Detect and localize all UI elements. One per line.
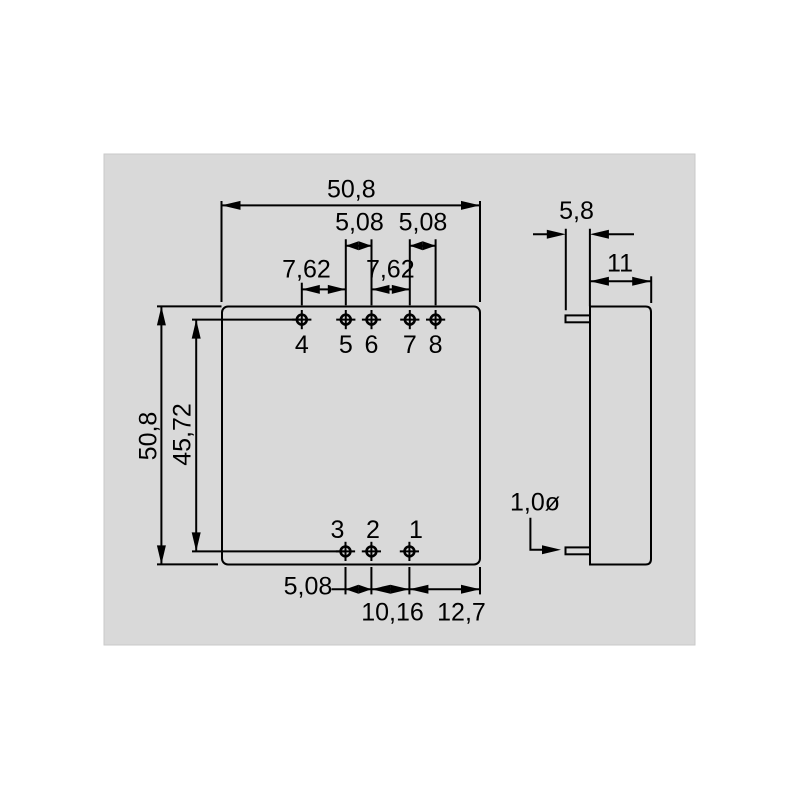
- pin 1: [400, 542, 419, 561]
- svg-text:7: 7: [403, 331, 417, 359]
- pin 6: [362, 310, 381, 329]
- dimension 11: extension line: [590, 276, 651, 303]
- svg-text:5,08: 5,08: [284, 572, 333, 600]
- front view package outline: [222, 307, 480, 565]
- svg-text:5,08: 5,08: [335, 209, 384, 237]
- svg-text:2: 2: [366, 516, 380, 544]
- dimension 7,62 (pins 4-5): extension line: [302, 283, 346, 306]
- pin 4: [292, 310, 311, 329]
- dimension 11: arrowheads: [590, 277, 651, 286]
- dimension 7,62 (pins 4-5): arrowheads: [302, 285, 346, 294]
- dimension 5,8 side: extension lines: [533, 229, 634, 311]
- dimension 5,8 side: arrowheads: [547, 230, 609, 239]
- svg-text:5: 5: [339, 331, 353, 359]
- dimension 5,8 side: tail lines: [533, 233, 553, 235]
- dimension 50,8 left: arrowheads: [157, 306, 166, 564]
- svg-text:7,62: 7,62: [282, 255, 331, 283]
- dimension 5,08 (pins 7-8): arrowheads: [410, 241, 436, 250]
- side view package outline: [590, 307, 651, 565]
- dimension 50,8 top: dimension line: [222, 204, 481, 206]
- dimension 45,72: extension lines: [192, 320, 346, 552]
- leader 1,0 diameter: arrowhead: [542, 545, 561, 554]
- leader 1,0 diameter: polyline: [530, 518, 548, 550]
- svg-text:50,8: 50,8: [327, 176, 376, 204]
- svg-text:7,62: 7,62: [366, 255, 415, 283]
- dimension 50,8 left: extension lines: [157, 306, 222, 564]
- svg-text:3: 3: [331, 516, 345, 544]
- svg-text:4: 4: [295, 331, 309, 359]
- svg-text:5,8: 5,8: [559, 197, 594, 225]
- dimension 5,08 (pins 5-6): arrowheads: [346, 241, 372, 250]
- dimension 45,72: dimension line: [195, 320, 197, 552]
- bottom chain dimension: dimension line with leader from 5,08 label: [332, 588, 481, 590]
- dimension 50,8 top: extension lines: [222, 201, 481, 302]
- svg-text:50,8: 50,8: [135, 412, 163, 461]
- bottom chain dimension: extension lines: [332, 567, 481, 594]
- svg-text:45,72: 45,72: [169, 403, 197, 466]
- pin 8: [426, 310, 445, 329]
- dimension 45,72: arrowheads: [192, 320, 201, 552]
- svg-text:11: 11: [607, 249, 633, 277]
- pin 2: [362, 542, 381, 561]
- svg-text:6: 6: [365, 331, 379, 359]
- pin number labels top row: [295, 331, 443, 359]
- bottom chain dimension: arrowheads: [346, 585, 481, 594]
- pin number labels bottom row: [331, 516, 423, 544]
- side view top pin: [566, 315, 591, 322]
- dimension 11: dimension line: [590, 280, 651, 282]
- pin 3: [336, 542, 355, 561]
- svg-text:1: 1: [409, 516, 423, 544]
- svg-text:10,16: 10,16: [361, 598, 424, 626]
- svg-text:5,08: 5,08: [399, 209, 448, 237]
- svg-text:12,7: 12,7: [437, 598, 486, 626]
- pin 7: [400, 310, 419, 329]
- dimension 5,08 (pins 5-6): extension lines: [346, 239, 372, 305]
- dimension 5,08 (pins 7-8): extension lines: [410, 239, 436, 305]
- gray drawing panel: [104, 154, 695, 645]
- side view bottom pin: [566, 547, 591, 554]
- svg-text:1,0ø: 1,0ø: [510, 489, 560, 517]
- dimension 7,62 (pins 6-7): arrowheads: [372, 285, 410, 294]
- svg-text:8: 8: [429, 331, 443, 359]
- pin 5: [336, 310, 355, 329]
- dimension 7,62 (pins 6-7): dimension line: [372, 288, 410, 290]
- dimension 50,8 top: arrowheads: [222, 201, 481, 210]
- dimension 50,8 left: dimension line: [160, 306, 162, 564]
